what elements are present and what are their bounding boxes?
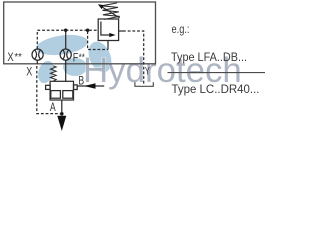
adjustment arrow [102, 7, 120, 18]
relief valve internal flow path [101, 22, 110, 36]
port A line [61, 100, 63, 112]
svg-text:B: B [78, 74, 84, 88]
relief valve U1 box [98, 19, 118, 41]
svg-text:X: X [7, 50, 13, 64]
node junction dot 1 [64, 29, 67, 32]
svg-text:Y: Y [145, 66, 150, 78]
port Y plug bracket [135, 82, 153, 86]
main valve spring [50, 66, 56, 81]
svg-text:**: ** [79, 53, 85, 64]
frame (control cover outline) [4, 2, 156, 64]
wire: orifice 1 bottom stub [36, 60, 38, 64]
node junction dot 2 [86, 29, 89, 32]
port B line [77, 85, 104, 87]
flow arrow at B [84, 83, 96, 89]
pilot line Y dashed to bottom [123, 31, 144, 84]
left tab [46, 85, 51, 89]
svg-text:**: ** [14, 52, 22, 63]
seat window left [51, 91, 61, 99]
svg-text:Type LFA..DB...: Type LFA..DB... [171, 52, 247, 64]
seat window right [63, 91, 73, 99]
svg-text:A: A [50, 100, 56, 114]
relief valve spring [102, 3, 120, 20]
orifice F (circle 2) [60, 49, 71, 60]
wire: node to orifice 2 (solid) [65, 30, 67, 49]
svg-text:e.g.:: e.g.: [172, 24, 190, 36]
orifice X (circle 1) [32, 49, 43, 60]
svg-text:F: F [73, 51, 79, 65]
relief valve bottom port wire [107, 41, 109, 50]
dashed wire: node to relief bottom [88, 31, 108, 49]
svg-text:Type LC..DR40...: Type LC..DR40... [172, 84, 260, 96]
wire: orifice 2 to main valve box top [65, 60, 67, 81]
right tab [74, 85, 78, 90]
pilot dashed line top: corner above orifice 1 to relief valve [37, 30, 98, 49]
pilot line X dashed down and across to node A [37, 66, 60, 114]
flow arrow at A [57, 116, 66, 131]
watermark swoosh [35, 32, 116, 85]
svg-text:X: X [26, 65, 32, 79]
main valve box [46, 81, 78, 100]
rule under first type row [168, 72, 266, 74]
node junction dot A [60, 112, 64, 116]
relief right stub [119, 30, 123, 32]
